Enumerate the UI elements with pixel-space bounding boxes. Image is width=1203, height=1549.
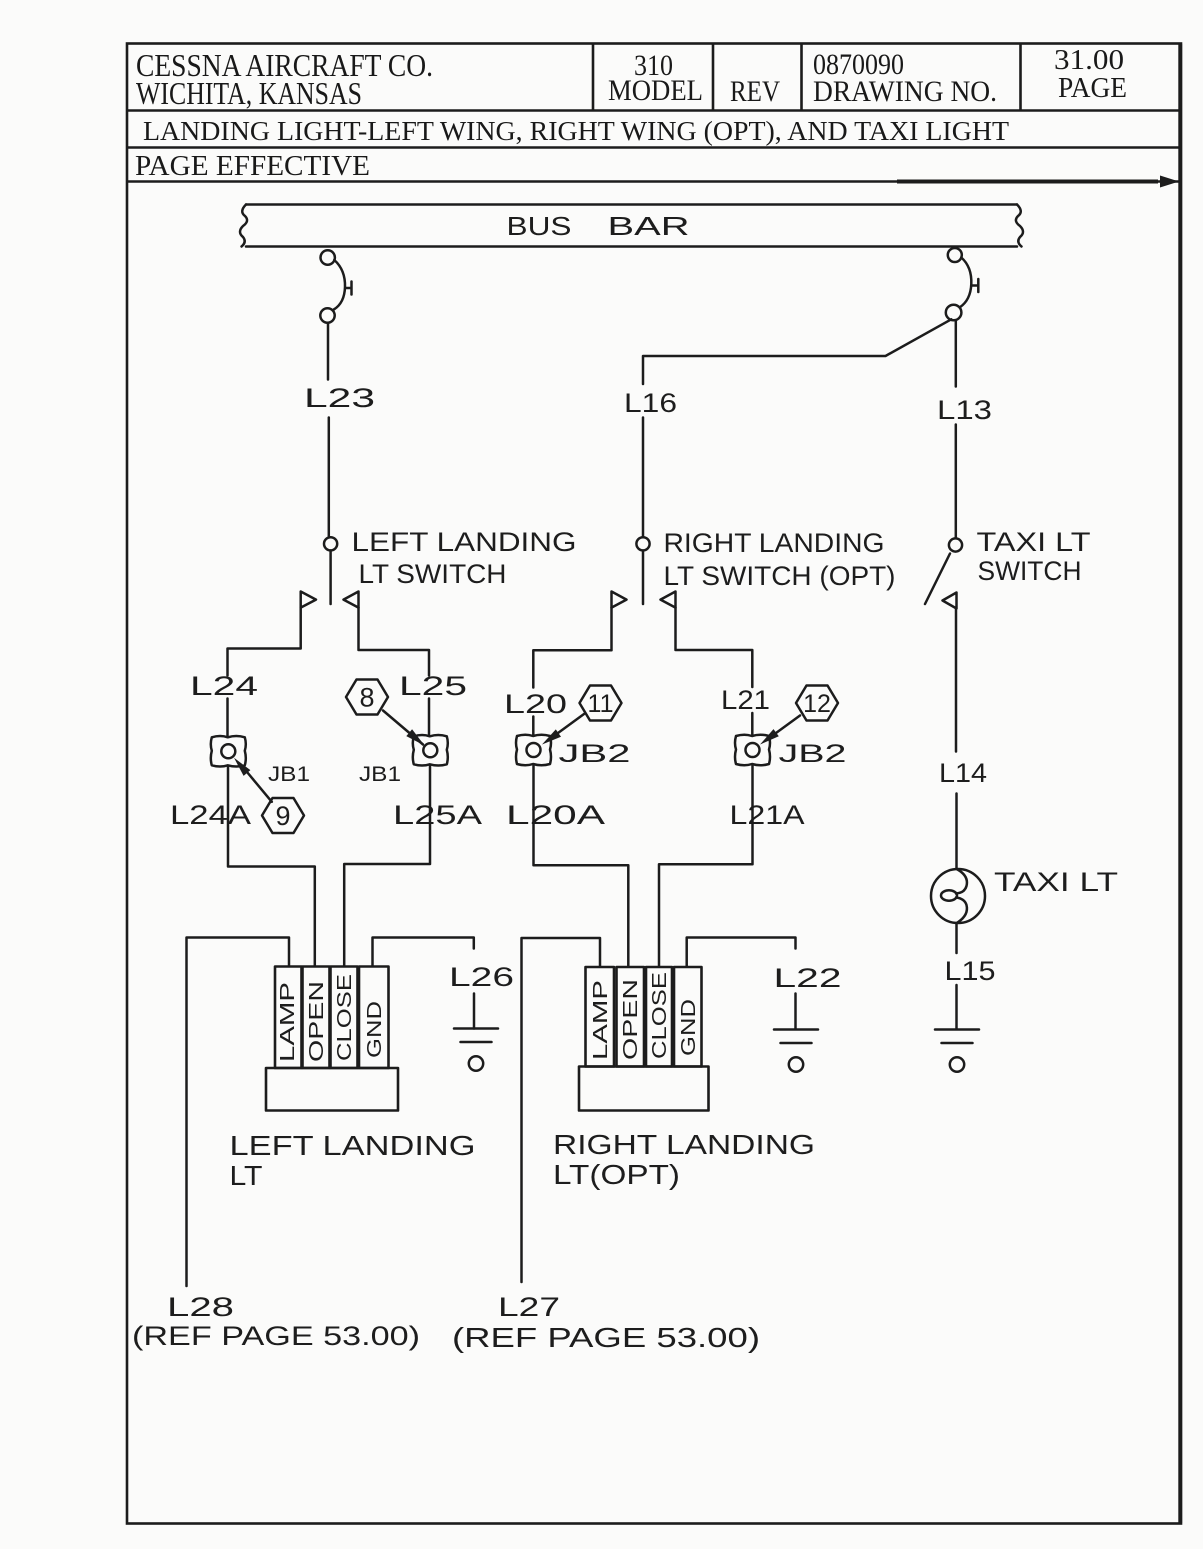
svg-text:L22: L22	[774, 963, 842, 993]
svg-text:LAMP: LAMP	[277, 982, 299, 1062]
svg-text:LT SWITCH (OPT): LT SWITCH (OPT)	[664, 561, 896, 591]
svg-text:L26: L26	[449, 962, 514, 992]
svg-text:WICHITA, KANSAS: WICHITA, KANSAS	[136, 75, 362, 111]
svg-text:LEFT LANDING: LEFT LANDING	[230, 1130, 476, 1161]
svg-text:OPEN: OPEN	[306, 981, 328, 1062]
svg-text:CLOSE: CLOSE	[649, 972, 671, 1059]
svg-text:TAXI LT: TAXI LT	[977, 527, 1091, 557]
svg-text:JB2: JB2	[779, 740, 847, 768]
svg-text:L21A: L21A	[730, 800, 805, 830]
svg-text:REV: REV	[730, 75, 780, 108]
svg-text:JB2: JB2	[559, 740, 631, 768]
svg-text:LT: LT	[230, 1160, 263, 1191]
svg-text:DRAWING NO.: DRAWING NO.	[813, 75, 997, 108]
svg-text:PAGE: PAGE	[1058, 72, 1127, 104]
svg-text:OPEN: OPEN	[620, 979, 642, 1060]
svg-text:L24: L24	[190, 671, 258, 701]
svg-text:GND: GND	[364, 1001, 386, 1058]
svg-text:L20A: L20A	[506, 800, 605, 830]
svg-text:L21: L21	[721, 685, 770, 715]
svg-text:LT(OPT): LT(OPT)	[553, 1159, 680, 1190]
svg-text:RIGHT LANDING: RIGHT LANDING	[553, 1129, 815, 1160]
svg-text:GND: GND	[678, 999, 700, 1056]
svg-text:MODEL: MODEL	[608, 74, 703, 107]
svg-text:LEFT LANDING: LEFT LANDING	[352, 527, 577, 557]
svg-text:L14: L14	[939, 758, 987, 788]
svg-text:PAGE EFFECTIVE: PAGE EFFECTIVE	[135, 151, 370, 182]
svg-text:L24A: L24A	[170, 800, 251, 830]
svg-text:JB1: JB1	[359, 763, 401, 786]
svg-text:(REF PAGE 53.00): (REF PAGE 53.00)	[132, 1321, 420, 1351]
svg-text:BAR: BAR	[608, 211, 690, 241]
svg-text:L15: L15	[945, 956, 996, 986]
svg-text:L27: L27	[498, 1292, 560, 1322]
svg-text:L25: L25	[399, 671, 467, 701]
svg-text:LT SWITCH: LT SWITCH	[359, 559, 507, 589]
svg-text:L25A: L25A	[393, 800, 482, 830]
svg-text:L20: L20	[504, 689, 567, 719]
svg-text:12: 12	[803, 690, 831, 718]
svg-text:LANDING LIGHT-LEFT WING, RIGH: LANDING LIGHT-LEFT WING, RIGHT WING (OPT…	[143, 116, 1010, 146]
svg-text:8: 8	[359, 683, 374, 713]
svg-text:L16: L16	[624, 388, 677, 418]
svg-text:BUS: BUS	[507, 211, 572, 241]
svg-text:RIGHT LANDING: RIGHT LANDING	[664, 528, 885, 558]
svg-text:L13: L13	[937, 395, 992, 425]
svg-text:11: 11	[588, 690, 614, 718]
svg-text:L28: L28	[167, 1292, 234, 1322]
svg-text:9: 9	[275, 801, 290, 831]
svg-text:L23: L23	[304, 383, 375, 413]
svg-text:CLOSE: CLOSE	[334, 974, 356, 1061]
svg-text:JB1: JB1	[268, 763, 310, 786]
svg-text:TAXI LT: TAXI LT	[994, 867, 1118, 897]
svg-text:LAMP: LAMP	[590, 980, 612, 1060]
svg-text:SWITCH: SWITCH	[978, 556, 1082, 586]
svg-text:(REF PAGE 53.00): (REF PAGE 53.00)	[452, 1322, 760, 1353]
